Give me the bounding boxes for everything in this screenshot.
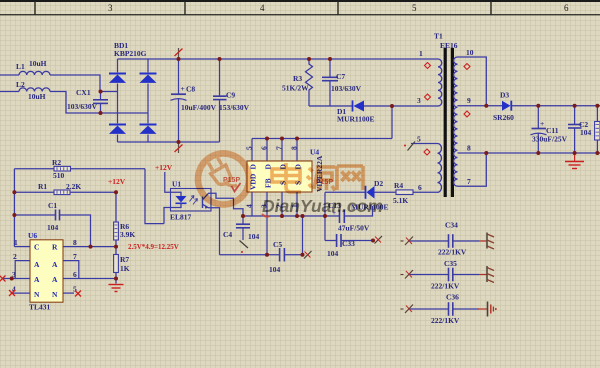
svg-text:7: 7 (73, 252, 77, 261)
wire left bus (13, 169, 15, 247)
svg-text:R1: R1 (38, 182, 47, 191)
svg-text:U1: U1 (172, 180, 181, 189)
svg-text:+12V: +12V (108, 177, 126, 186)
svg-text:8: 8 (467, 144, 471, 153)
svg-text:C36: C36 (446, 293, 459, 302)
no-ERC marker left of C36 (401, 305, 414, 314)
svg-text:R3: R3 (293, 74, 302, 83)
capacitor C33 in-line (327, 234, 373, 258)
watermark DianYuan.com (262, 196, 383, 216)
wire DC+ top rail (118, 58, 439, 60)
svg-text:N: N (52, 290, 58, 299)
op-amp U4 VIPER22A body (247, 148, 324, 193)
diode D1 (337, 101, 392, 124)
svg-text:6: 6 (564, 3, 569, 13)
wire opto cathode to R2 (145, 169, 164, 224)
svg-text:103/630V: 103/630V (331, 84, 362, 93)
svg-text:10: 10 (466, 48, 474, 57)
svg-text:2: 2 (13, 252, 17, 261)
transformer aux winding 5-6 (438, 144, 442, 193)
svg-text:6: 6 (418, 183, 422, 192)
resistor R4 (393, 181, 438, 205)
no-ERC marker above C8 node (175, 48, 183, 59)
watermark logo ring (189, 144, 259, 214)
watermark chinese characters (drawn) (272, 163, 363, 192)
bridge rectifier BD1 label (114, 41, 147, 58)
wire opto emitter to FB rail (211, 208, 220, 255)
wire drain rail to U4 (252, 138, 392, 140)
svg-text:222/1KV: 222/1KV (438, 248, 467, 257)
svg-text:4: 4 (260, 3, 265, 13)
watermark small red texts (223, 177, 333, 186)
wire drain vertical (391, 106, 393, 139)
no-ERC marker left of C34 (401, 237, 414, 246)
svg-text:104: 104 (47, 223, 59, 232)
wire source rail (243, 215, 339, 217)
wire +V output rail (511, 105, 600, 107)
resistor R6 (114, 192, 136, 254)
capacitor C11 (531, 106, 568, 153)
op-amp U6 TL431 body (28, 231, 63, 312)
svg-text:R7: R7 (120, 255, 129, 264)
border zone numbers 3 4 5 6 (108, 3, 569, 13)
bridge diode D-left-top (109, 59, 126, 123)
svg-text:EL817: EL817 (170, 213, 192, 222)
svg-text:6: 6 (73, 270, 77, 279)
svg-text:P15P: P15P (223, 177, 240, 184)
svg-text:+: + (181, 84, 185, 93)
no-ERC marker right of C33 (375, 236, 383, 244)
wire drain node to transformer pin 3 (392, 105, 438, 107)
svg-text:47uF/50V: 47uF/50V (338, 224, 370, 233)
transformer primary winding 1-3 (438, 59, 442, 106)
chassis ground (C34) (479, 233, 494, 250)
wire C33 line (325, 240, 336, 242)
svg-text:+: + (540, 119, 544, 128)
capacitor C9 (213, 59, 250, 142)
border tick marks (35, 1, 491, 15)
svg-text:KBP210G: KBP210G (114, 49, 147, 58)
svg-text:D3: D3 (500, 91, 509, 100)
svg-text:153/630V: 153/630V (219, 103, 250, 112)
capacitor C34 (408, 221, 479, 257)
svg-text:5: 5 (412, 3, 417, 13)
wire source-to-FB vertical (302, 216, 304, 255)
svg-text:MUR1100E: MUR1100E (337, 115, 375, 124)
svg-text:6: 6 (260, 146, 269, 150)
U4 drain pin wires 5,6,7,8 (252, 139, 297, 162)
capacitor C13 47uF in-line (328, 201, 373, 233)
U6 pin 1 wire (14, 238, 30, 247)
svg-text:C1: C1 (48, 201, 57, 210)
U6 pin 2 wire (13, 252, 30, 279)
resistor R3 (282, 59, 313, 106)
svg-text:1: 1 (14, 238, 18, 247)
svg-text:104: 104 (580, 128, 592, 137)
svg-text:9: 9 (467, 96, 471, 105)
svg-text:330uF/25V: 330uF/25V (532, 135, 568, 144)
diode D2 (351, 179, 396, 212)
no-ERC marker left of C35 (401, 270, 414, 279)
svg-text:C5: C5 (273, 240, 282, 249)
svg-text:2.5V*4.9=12.25V: 2.5V*4.9=12.25V (128, 243, 179, 251)
resistor R2 (14, 158, 145, 180)
svg-text:R2: R2 (52, 158, 61, 167)
svg-text:C9: C9 (226, 91, 235, 100)
resistor R5 (edge) (595, 106, 600, 153)
no-ERC cross pin 5 (75, 291, 81, 297)
capacitor C35 (408, 259, 479, 291)
capacitor C7 (322, 59, 362, 106)
transformer secondary winding (454, 57, 458, 186)
wire FB rail (220, 254, 280, 256)
svg-text:2.2K: 2.2K (66, 182, 81, 191)
svg-text:C8: C8 (186, 85, 195, 94)
svg-text:CX1: CX1 (76, 88, 91, 97)
U6 pin 6 wire (63, 270, 116, 279)
svg-text:3: 3 (417, 96, 421, 105)
svg-text:1: 1 (419, 49, 423, 58)
wire pin 9 (458, 105, 503, 107)
wire pin 10 (458, 57, 487, 106)
svg-text:+12V: +12V (155, 163, 173, 172)
svg-text:L1: L1 (16, 62, 25, 71)
U6 pin 5 wire (63, 285, 77, 294)
bridge diode D-right-top (140, 59, 157, 123)
U6 pin 3 wire (2, 270, 30, 279)
svg-text:5: 5 (245, 146, 254, 150)
U4 pin numbers 5 6 7 8 (245, 146, 299, 150)
svg-text:T1: T1 (434, 32, 443, 41)
svg-text:7: 7 (275, 146, 284, 150)
svg-text:U6: U6 (28, 231, 37, 240)
power port +12V (opto) (155, 163, 181, 196)
U6 pin 8 wire (63, 238, 116, 247)
svg-text:C: C (34, 243, 39, 252)
svg-text:104: 104 (248, 232, 260, 241)
svg-text:R4: R4 (394, 181, 403, 190)
wire pin 5 stub (411, 143, 438, 145)
wire opto collector to source rail (211, 193, 243, 216)
svg-text:3: 3 (108, 3, 113, 13)
svg-text:N: N (34, 290, 40, 299)
U6 pin 7 wire (63, 252, 79, 279)
svg-text:C33: C33 (342, 239, 355, 248)
svg-text:5.1K: 5.1K (393, 196, 408, 205)
svg-text:SR260: SR260 (493, 113, 514, 122)
sheet border top line (0, 0, 600, 15)
svg-text:1K: 1K (120, 264, 130, 273)
wire pin 7 (458, 153, 487, 186)
capacitor C8 (171, 59, 217, 142)
svg-text:10uH: 10uH (28, 92, 46, 101)
no-ERC cross pin 4 (9, 290, 15, 296)
ground (secondary, red) (565, 153, 584, 169)
svg-text:DianYuan.com: DianYuan.com (262, 196, 383, 216)
U4 pin numbers 4 3 2 1 (245, 204, 299, 208)
svg-text:510: 510 (53, 171, 65, 180)
inductor L1 (0, 59, 118, 92)
svg-text:8: 8 (290, 146, 299, 150)
wire pin 8 (458, 152, 487, 154)
wire clamp node (309, 105, 352, 107)
svg-text:8: 8 (73, 238, 77, 247)
wire output gnd rail (486, 152, 600, 154)
red polarity diamonds (424, 63, 470, 156)
svg-text:EE16: EE16 (440, 41, 458, 50)
svg-text:R: R (52, 243, 58, 252)
chassis ground (C35) (479, 266, 494, 283)
svg-text:U4: U4 (310, 148, 319, 157)
bridge diode D-left-bottom (109, 125, 126, 143)
capacitor C36 (408, 293, 479, 326)
wire VDD vertical (324, 192, 326, 240)
svg-text:TL431: TL431 (29, 303, 51, 312)
svg-text:D2: D2 (374, 179, 383, 188)
svg-text:222/1KV: 222/1KV (431, 282, 460, 291)
transformer core (444, 48, 454, 197)
svg-text:10uH: 10uH (29, 59, 47, 68)
U4 bottom pin wires (252, 192, 297, 255)
transformer T1 labels (434, 32, 458, 51)
svg-text:104: 104 (327, 249, 339, 258)
svg-text:7: 7 (467, 177, 471, 186)
svg-text:C34: C34 (445, 221, 458, 230)
capacitor C5 in-line (269, 240, 303, 274)
svg-text:A: A (34, 275, 40, 284)
svg-text:C4: C4 (223, 230, 232, 239)
svg-text:5: 5 (417, 135, 421, 144)
svg-text:A: A (52, 260, 58, 269)
no-ERC marker below C8 node (175, 142, 183, 153)
svg-text:3.9K: 3.9K (120, 230, 135, 239)
resistor R1 (14, 182, 116, 195)
wire aux line (325, 191, 365, 193)
no-ERC marker pin 5 (404, 142, 415, 151)
optocoupler U1 EL817 (164, 180, 211, 224)
svg-text:51K/2W: 51K/2W (282, 84, 309, 93)
svg-text:A: A (52, 275, 58, 284)
no-ERC cross pin 3 (0, 276, 6, 282)
svg-text:10uF/400V: 10uF/400V (181, 103, 217, 112)
svg-text:222/1KV: 222/1KV (431, 316, 460, 325)
svg-text:A: A (34, 260, 40, 269)
svg-text:103/630V: 103/630V (67, 102, 98, 111)
diode D3 (493, 91, 514, 123)
ground (primary, red) (109, 285, 124, 292)
bridge diode D-right-bottom (140, 125, 157, 143)
U6 pin 4 wire (11, 285, 30, 294)
capacitor C4 (223, 216, 260, 241)
svg-text:104: 104 (269, 265, 281, 274)
svg-text:L2: L2 (16, 80, 25, 89)
inductor L2 (0, 80, 148, 113)
power ground (C36) (478, 302, 497, 317)
capacitor CX1 (67, 88, 108, 113)
capacitor C2 (568, 106, 592, 153)
no-ERC marker below C4 (240, 241, 249, 254)
capacitor C1 (14, 201, 90, 247)
no-ERC marker right of C5 (304, 251, 312, 259)
wire DC- bottom rail (118, 141, 220, 143)
svg-text:C35: C35 (444, 259, 457, 268)
resistor R7 (114, 255, 130, 284)
svg-text:C7: C7 (336, 72, 345, 81)
